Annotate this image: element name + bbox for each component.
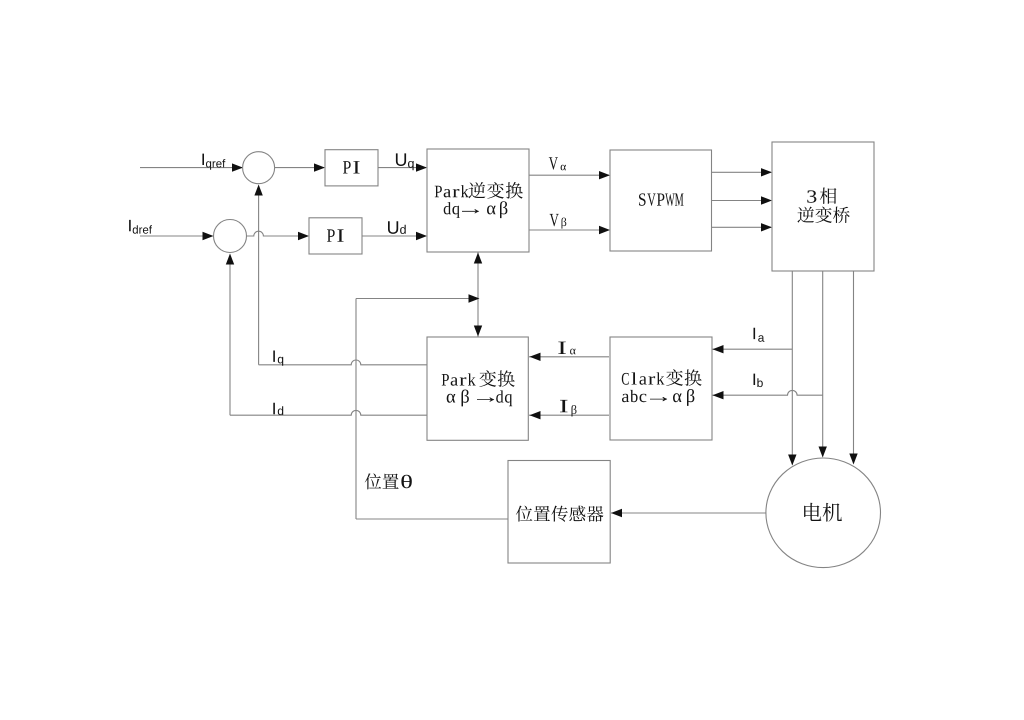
- block U4 Clark transform: [610, 337, 712, 440]
- wire Iq feedback horizontal with hop: [259, 360, 427, 365]
- label position theta CJK: [365, 473, 399, 489]
- label U5 line2: [447, 390, 513, 407]
- arrowhead phase B into motor: [819, 447, 827, 458]
- label Ud: [388, 221, 406, 234]
- label PI2 text: [327, 229, 344, 241]
- label U5 line1 Park: [442, 373, 476, 385]
- arrowhead Ud into U1: [416, 232, 427, 240]
- wire S1 to PI1: [275, 167, 324, 169]
- arrowhead theta up into U1: [474, 253, 482, 264]
- label U4 line1 Clark: [622, 372, 665, 384]
- block PI2: [309, 218, 362, 254]
- wire Id feedback vertical: [229, 255, 231, 416]
- arrowhead Vbeta: [599, 226, 610, 234]
- wire Iqref input: [140, 167, 242, 169]
- label U1 line2: [444, 201, 508, 218]
- arrowhead Ia into Clark: [713, 345, 724, 353]
- label motor text: [804, 503, 842, 522]
- arrowhead into PI2: [298, 232, 309, 240]
- arrowhead Valpha: [599, 171, 610, 179]
- label U5 line1 CJK: [479, 370, 514, 387]
- arrowhead into PI1: [314, 163, 325, 171]
- label U4 line2: [622, 389, 694, 406]
- label Ia: [754, 328, 765, 342]
- wire Idref input: [140, 235, 213, 237]
- arrowhead theta junction: [469, 294, 480, 302]
- arrowhead theta down into U5: [474, 326, 482, 337]
- arrowhead Ibeta into U5: [530, 411, 541, 419]
- arrowhead Iq into S1: [254, 185, 262, 196]
- arrowhead out3: [761, 223, 772, 231]
- wire PI2 to U1: [362, 235, 426, 237]
- arrowhead into summing junction S1: [232, 163, 243, 171]
- block U2 SVPWM: [610, 150, 712, 251]
- arrowhead Ib into Clark: [713, 391, 724, 399]
- label PI1 text: [343, 161, 360, 173]
- label Id: [273, 403, 283, 415]
- arrowhead Id into S2: [226, 254, 234, 265]
- summing junction S2: [214, 220, 247, 253]
- label Ib: [754, 374, 763, 388]
- label U3 line2: [797, 207, 849, 224]
- wire Ib tap with hop over phase A: [713, 390, 823, 395]
- label U4 line1 CJK: [666, 369, 701, 386]
- arrowhead Uq into U1: [416, 163, 427, 171]
- wire motor to sensor: [611, 512, 766, 514]
- label U1 line1 Park: [435, 185, 469, 197]
- label Vbeta: [550, 214, 567, 229]
- wire Id feedback horizontal with hop: [230, 410, 427, 415]
- arrowhead phase C into motor: [849, 454, 857, 465]
- wire SVPWM out2: [712, 200, 772, 202]
- wire Ibeta: [529, 414, 609, 416]
- label U6 text: [516, 506, 604, 522]
- label Ialpha: [558, 342, 575, 355]
- label Iq: [273, 351, 283, 366]
- wire theta vertical left: [355, 299, 357, 520]
- block U5 Park transform: [427, 337, 528, 440]
- label Uq: [396, 153, 414, 170]
- block U3 three-phase inverter bridge: [772, 142, 874, 271]
- arrowhead out2: [761, 196, 772, 204]
- arrowhead Ialpha into U5: [530, 353, 541, 361]
- wire Iq feedback vertical: [258, 186, 260, 365]
- block U6 position sensor: [508, 461, 610, 564]
- block PI1: [325, 150, 378, 186]
- wire theta from sensor: [356, 518, 508, 520]
- block U1 Park inverse transform: [427, 149, 529, 252]
- label U1 line1 CJK: [469, 182, 523, 199]
- wire Ia tap: [713, 348, 793, 350]
- motor circle M1: [766, 458, 881, 568]
- arrowhead out1: [761, 168, 772, 176]
- wire SVPWM out1: [712, 171, 772, 173]
- wire theta vertical between U1 and U5: [477, 253, 479, 337]
- label Iqref: [202, 154, 225, 170]
- wire Valpha to SVPWM: [529, 174, 609, 176]
- wire Ialpha: [529, 356, 609, 358]
- label Idref: [129, 220, 152, 234]
- label SVPWM text: [639, 193, 684, 206]
- arrowhead into summing junction S2: [203, 232, 214, 240]
- label Ibeta: [560, 400, 577, 417]
- wire SVPWM out3: [712, 226, 772, 228]
- wire S2 to PI2 with hop over Iq feedback: [247, 231, 309, 236]
- label position theta symbol: [401, 475, 411, 489]
- summing junction S1: [243, 152, 275, 184]
- label U3 line1: [807, 190, 816, 202]
- wire PI1 to U1: [378, 167, 426, 169]
- wire phase B down: [822, 271, 824, 457]
- arrowhead phase A into motor: [788, 455, 796, 466]
- wire theta horizontal upper: [356, 298, 478, 300]
- arrowhead into sensor: [611, 509, 622, 517]
- wire phase C down: [853, 271, 855, 464]
- wire Vbeta to SVPWM: [529, 229, 609, 231]
- label Valpha: [549, 157, 566, 170]
- wire phase A down: [791, 271, 793, 465]
